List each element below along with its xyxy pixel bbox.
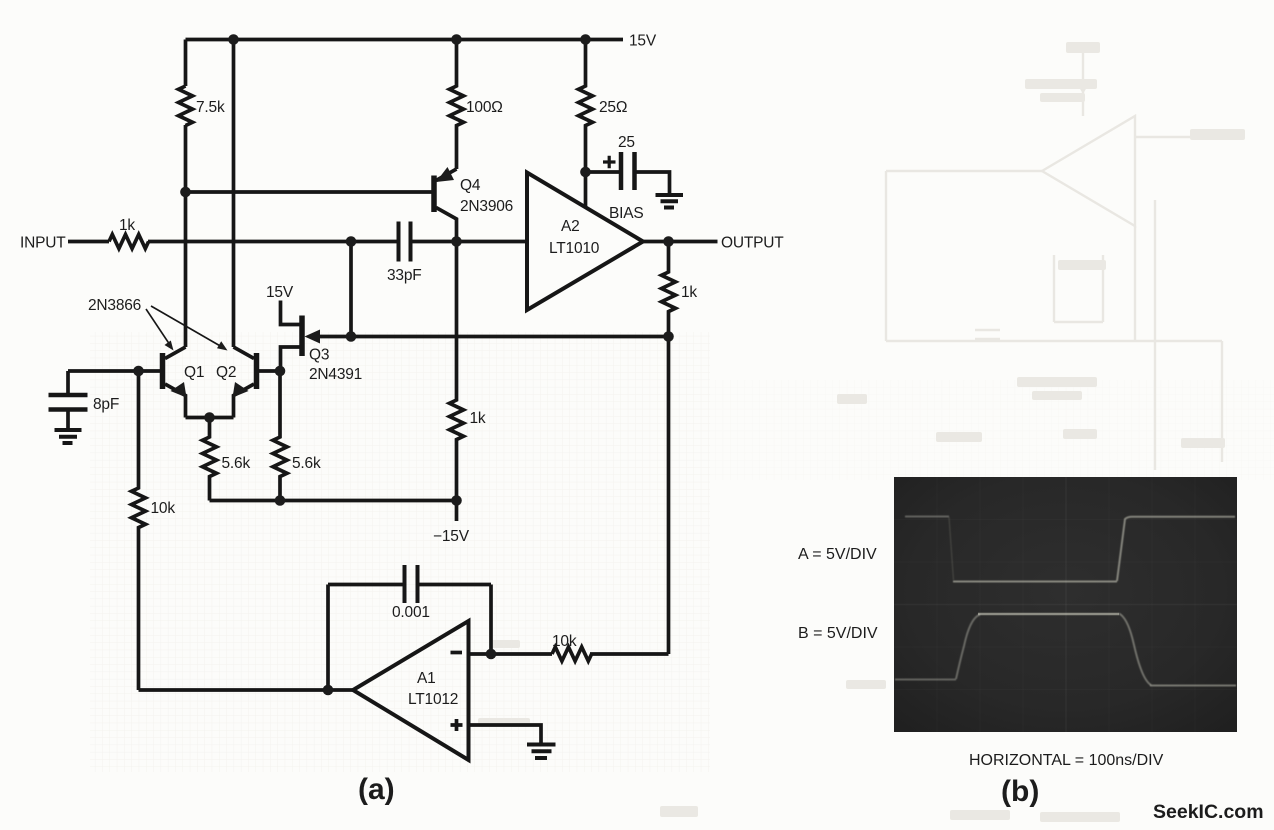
svg-text:A = 5V/DIV: A = 5V/DIV	[798, 546, 877, 563]
wire 8pF to ground	[66, 410, 70, 429]
wire second vertical x=233.5 (rail to Q2 collector)	[232, 40, 236, 348]
node 5.6k-rail	[275, 495, 286, 506]
wire fb left vertical	[326, 585, 330, 691]
A1 minus sign	[451, 651, 463, 655]
capacitor C 8pF	[49, 395, 88, 410]
wire fb cap vertical right	[489, 585, 493, 655]
node 7.5k-Q4base	[180, 187, 191, 198]
GRID_TEXTURE	[90, 332, 710, 772]
resistor R 5.6k left	[203, 418, 217, 501]
wire Q3 gate line y=336.5	[312, 335, 669, 339]
svg-text:2N3906: 2N3906	[460, 198, 513, 215]
node gate-33pF	[346, 331, 357, 342]
wire bias cap to ground	[637, 172, 670, 194]
wire Q4 base line y=192	[186, 190, 432, 194]
node bias	[580, 167, 591, 178]
svg-text:Q4: Q4	[460, 177, 481, 194]
ground A1	[527, 745, 556, 759]
resistor R 10k left	[132, 371, 146, 690]
svg-text:100Ω: 100Ω	[466, 99, 503, 116]
trace B right baseline	[1150, 685, 1236, 687]
svg-text:8pF: 8pF	[93, 396, 119, 413]
annotation arrow to Q1	[146, 309, 170, 345]
bias plus sign	[603, 156, 616, 168]
svg-text:(b): (b)	[1001, 775, 1039, 808]
node rail-100ohm	[451, 34, 462, 45]
node Q4coll-input	[451, 236, 462, 247]
wire -15V stub	[455, 501, 459, 522]
wire 33pF node to gate line	[349, 242, 353, 337]
capacitor C 33pF	[399, 222, 411, 262]
wire left vertical x=185.5 (rail to Q1 collector)	[184, 40, 188, 348]
wire +15V top rail	[186, 38, 624, 42]
wire 8pF feed	[68, 371, 139, 393]
trace A rising edge + right plateau	[1117, 517, 1235, 581]
wire fb cap top	[328, 583, 491, 587]
wire feedback vertical x=668.5	[667, 337, 671, 655]
capacitor C 0.001	[405, 565, 418, 603]
svg-text:Q3: Q3	[309, 347, 329, 364]
svg-text:A2: A2	[561, 218, 580, 235]
svg-text:2N3866: 2N3866	[88, 297, 141, 314]
resistor R 1k output	[662, 242, 676, 337]
node input-33pF	[346, 236, 357, 247]
svg-text:OUTPUT: OUTPUT	[721, 235, 784, 252]
wire Q2 base to node	[259, 369, 280, 373]
wire INPUT line y=241.5	[68, 240, 527, 244]
wire bias cap feed	[586, 170, 620, 174]
svg-text:15V: 15V	[266, 284, 294, 301]
svg-text:1k: 1k	[119, 217, 135, 234]
op-amp A1 LT1012	[353, 621, 469, 760]
svg-text:B = 5V/DIV: B = 5V/DIV	[798, 625, 878, 642]
wire Q1 base to node	[139, 369, 161, 373]
svg-text:25Ω: 25Ω	[599, 99, 627, 116]
svg-text:BIAS: BIAS	[609, 205, 644, 222]
trace A left segment	[905, 516, 949, 518]
ground bias	[656, 195, 684, 208]
node output	[663, 236, 674, 247]
wire A1 minus output line y=654	[469, 652, 669, 656]
transistor Q4 2N3906	[434, 167, 457, 242]
node Q2base-Q3source	[275, 366, 286, 377]
wire OUTPUT	[643, 240, 718, 244]
node A1minus-10k	[486, 649, 497, 660]
node rail-x233	[228, 34, 239, 45]
svg-text:1k: 1k	[470, 410, 486, 427]
trace A low plateau	[953, 581, 1117, 583]
node fb-A1input	[323, 685, 334, 696]
node rail-25ohm	[580, 34, 591, 45]
svg-text:A1: A1	[417, 670, 436, 687]
ghost bleed-through circuit	[886, 50, 1222, 470]
resistor R 7.5k	[179, 86, 193, 126]
wire emitter bus y=417.5	[186, 416, 234, 420]
trace B left baseline	[895, 679, 956, 681]
svg-text:2N4391: 2N4391	[309, 366, 362, 383]
svg-text:(a): (a)	[358, 773, 395, 806]
resistor R 1k input	[109, 235, 149, 249]
wire A1 plus to ground	[469, 725, 542, 743]
svg-text:5.6k: 5.6k	[292, 455, 321, 472]
svg-text:10k: 10k	[151, 500, 176, 517]
wire A2 bias pin	[584, 172, 588, 207]
node gate-feedback	[663, 331, 674, 342]
annotation arrow to Q2	[151, 306, 222, 347]
resistor R 25ohm	[579, 40, 593, 173]
capacitor C 25 bias	[621, 152, 635, 190]
resistor R 100ohm	[450, 40, 464, 170]
svg-text:SeekIC.com: SeekIC.com	[1153, 801, 1264, 823]
svg-text:LT1012: LT1012	[408, 691, 458, 708]
transistor Q1 2N3866	[163, 347, 187, 418]
scope photograph	[894, 477, 1237, 732]
svg-text:0.001: 0.001	[392, 604, 430, 621]
node emitterbus-5.6k	[204, 412, 215, 423]
svg-text:25: 25	[618, 134, 635, 151]
svg-text:1k: 1k	[681, 284, 697, 301]
svg-text:−15V: −15V	[433, 528, 470, 545]
svg-text:INPUT: INPUT	[20, 235, 66, 252]
wire -15V rail	[210, 499, 457, 503]
trace B rise	[956, 615, 980, 680]
transistor Q3 2N4391	[281, 301, 321, 372]
svg-text:33pF: 33pF	[387, 267, 422, 284]
resistor R 1k mid	[450, 242, 464, 501]
svg-text:Q2: Q2	[216, 364, 236, 381]
svg-text:10k: 10k	[552, 633, 577, 650]
svg-text:15V: 15V	[629, 33, 657, 50]
A1 plus sign	[451, 719, 463, 731]
resistor R 10k feedback	[552, 647, 592, 661]
transistor Q2 2N3866	[233, 347, 257, 418]
node Q1base-8pF	[133, 366, 144, 377]
svg-text:7.5k: 7.5k	[196, 99, 225, 116]
svg-text:5.6k: 5.6k	[222, 455, 251, 472]
wire A1 input line y=690	[139, 688, 354, 692]
resistor R 5.6k right	[273, 371, 287, 501]
svg-text:HORIZONTAL = 100ns/DIV: HORIZONTAL = 100ns/DIV	[969, 752, 1164, 769]
trace A falling edge	[949, 517, 954, 580]
ground 8pF	[55, 430, 82, 443]
svg-text:LT1010: LT1010	[549, 240, 600, 257]
node 1k-minus15	[451, 495, 462, 506]
trace B falling edge	[1119, 614, 1151, 686]
op-amp A2 LT1010	[527, 173, 643, 311]
svg-text:Q1: Q1	[184, 364, 204, 381]
trace B high plateau	[978, 613, 1119, 615]
